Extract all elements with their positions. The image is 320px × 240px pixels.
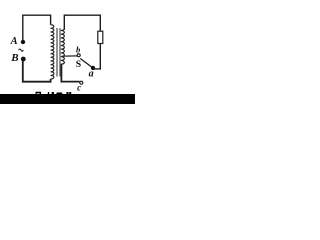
terminal c open circle — [80, 81, 83, 84]
caption sliver: top of 0 — [69, 92, 71, 94]
svg-text:c: c — [77, 83, 81, 93]
caption sliver: top of 6 — [52, 92, 54, 94]
caption sliver: top of 图 — [36, 92, 42, 95]
svg-text:B: B — [10, 52, 18, 64]
svg-text:a: a — [89, 69, 94, 80]
wire: from node a to right rail below resistor — [93, 44, 100, 69]
switch S arm — [80, 59, 93, 69]
caption sliver: top of 1 — [48, 92, 49, 94]
wire: secondary bottom lead to terminal c — [61, 64, 79, 81]
transformer core line 1 — [56, 28, 58, 77]
AC tilde symbol — [19, 49, 24, 51]
transformer core line 2 — [59, 28, 61, 77]
background — [0, 0, 135, 104]
wire: AC source top leg from A up, across, down to primary coil top — [23, 15, 51, 40]
svg-text:b: b — [76, 44, 80, 54]
wire: connector curve into secondary coil — [61, 29, 64, 30]
wire: primary bottom leg across to B — [23, 61, 51, 82]
contact b open circle — [77, 54, 80, 57]
terminal A dot — [21, 40, 25, 44]
caption sliver: dash of 16—30 — [57, 93, 63, 95]
svg-text:A: A — [10, 36, 18, 47]
primary winding coil — [51, 25, 54, 79]
resistor R — [98, 31, 103, 43]
secondary winding coil — [61, 30, 65, 64]
wire: secondary centre tap to contact b — [62, 55, 77, 57]
wire: secondary top lead across to right rail, down to resistor — [64, 15, 100, 31]
node a junction dot — [91, 66, 95, 70]
svg-text:S: S — [76, 59, 81, 70]
bottom black band — [0, 94, 135, 104]
caption sliver: top of 3 — [67, 92, 69, 94]
terminal B dot — [21, 57, 26, 62]
